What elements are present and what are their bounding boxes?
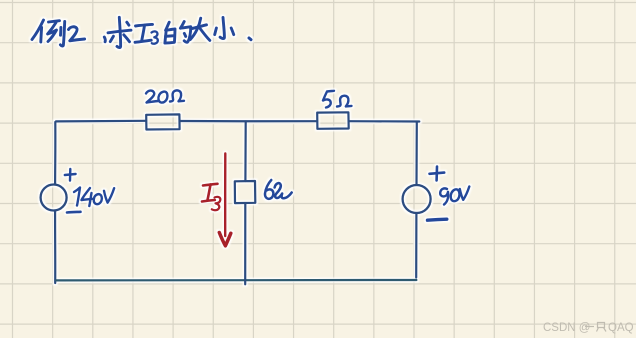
svg-text:QAQ: QAQ bbox=[608, 322, 634, 334]
watermark bbox=[543, 322, 634, 334]
svg-text:CSDN @: CSDN @ bbox=[543, 322, 590, 334]
